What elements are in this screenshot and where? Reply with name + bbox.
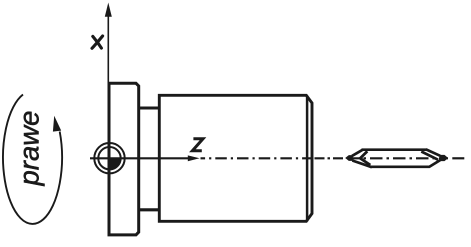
svg-text:prawe: prawe [14,111,45,187]
center drill right flute line [421,152,438,160]
Z axis dash-dot centerline [201,157,465,159]
center drill right bottom cone line [429,160,440,167]
Z axis solid line [90,157,189,159]
rotation arrowhead [53,116,61,132]
center-of-rotation symbol outer circle [94,143,124,173]
center-of-rotation symbol inner circle [98,147,120,169]
neck step line top [139,106,160,109]
center drill left V-notch lines [360,151,370,165]
chamfer edge line on body right end [306,96,309,222]
center drill right top cone line [426,149,440,155]
center drill body bottom edge [371,165,430,168]
Z axis arrowhead [188,155,200,161]
X axis line [107,15,109,85]
X axis arrowhead [105,3,112,17]
flange (backplate of workpiece) [109,83,139,235]
center drill left top cone line [352,150,363,156]
center drill right pilot tip (filled) [440,155,449,161]
center drill body top edge [362,148,427,151]
center drill left flute line [352,161,372,168]
body (cylindrical workpiece) [159,95,312,221]
center drill left pilot tip (filled) [345,155,353,161]
rotation direction ellipse arc [3,95,62,224]
filled bottom-right quadrant [110,158,121,169]
neck step line bottom [139,208,160,211]
Z axis label [192,139,203,151]
X axis label [92,36,103,48]
